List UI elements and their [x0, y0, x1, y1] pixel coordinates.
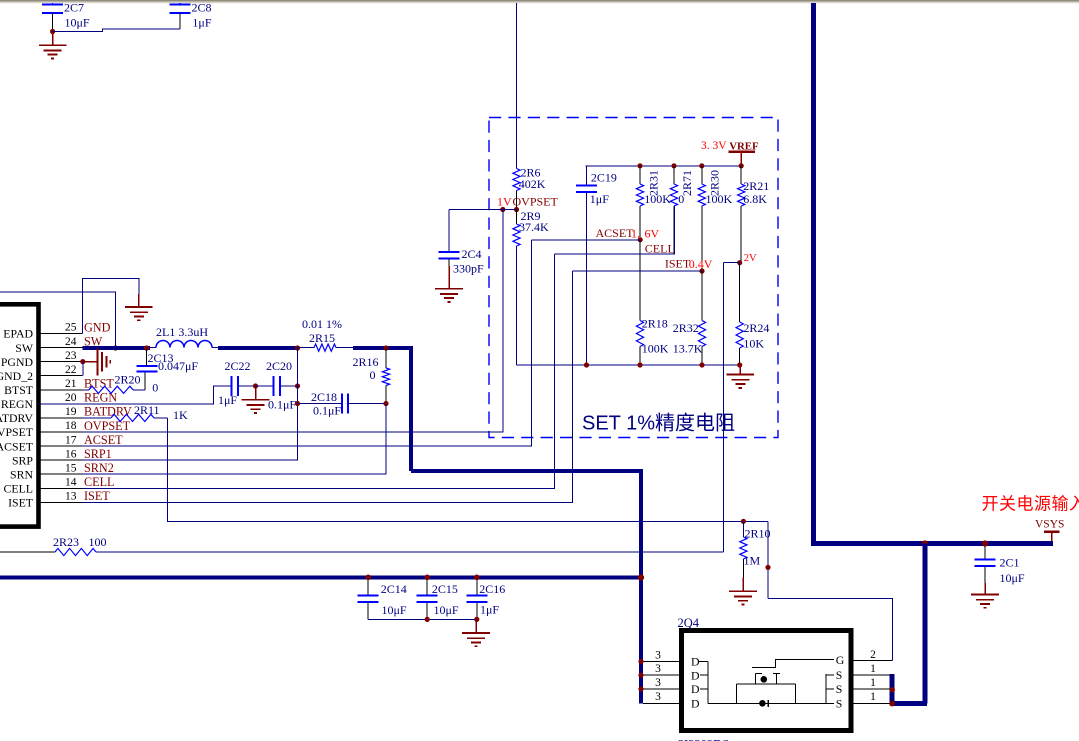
- svg-text:2R20: 2R20: [115, 372, 141, 386]
- svg-text:20: 20: [65, 392, 77, 404]
- resistor 2R15 (0.01 1%) current sense: [298, 317, 354, 351]
- wire GND pin to ground: [83, 278, 139, 333]
- capacitor 2C18 (0.1uF): [298, 390, 387, 418]
- ground (below 2R10): [729, 578, 757, 605]
- svg-text:D: D: [691, 668, 700, 682]
- svg-text:0: 0: [678, 192, 684, 206]
- svg-text:BTST: BTST: [84, 377, 114, 391]
- svg-text:VREF: VREF: [729, 140, 759, 152]
- svg-text:10μF: 10μF: [382, 603, 407, 617]
- svg-text:2C16: 2C16: [479, 582, 505, 596]
- junction (SW bus / 2C13): [144, 345, 149, 350]
- ground (below divider rail): [727, 365, 755, 388]
- svg-text:37.4K: 37.4K: [519, 220, 549, 234]
- ground (decoupling mid): [242, 386, 270, 413]
- svg-text:2Q4: 2Q4: [678, 616, 700, 630]
- svg-text:13.7K: 13.7K: [673, 341, 703, 355]
- node ISET 0.4V: [665, 257, 713, 271]
- capacitor 2C15 (10uF): [417, 580, 459, 620]
- svg-text:13: 13: [65, 491, 77, 503]
- svg-text:1V: 1V: [497, 195, 512, 209]
- wire pin22 to pin23 node: [82, 362, 84, 376]
- svg-text:1K: 1K: [173, 408, 188, 422]
- svg-text:SW: SW: [15, 341, 34, 355]
- svg-text:3: 3: [655, 649, 661, 661]
- junction (ACSET): [638, 237, 643, 242]
- power symbol PGND (rotated ground): [83, 348, 111, 375]
- IC pin net labels (GND SW BTST REGN BATDRV OVPSET ACSET SRP1 SRN2 CELL ISET): [84, 320, 132, 503]
- junction (rail/2R32 bottom): [699, 362, 704, 367]
- junction (S pin 1 mid): [889, 687, 895, 693]
- 2Q4 gate/source pin stubs (pins 2,1,1,1): [851, 649, 893, 703]
- svg-text:2C14: 2C14: [381, 582, 407, 596]
- IC U2 charger (pins 13-25): [0, 304, 83, 526]
- capacitor 2C20 (0.1uF): [256, 359, 298, 412]
- junction (S pin 1 bottom): [889, 701, 895, 707]
- svg-text:6V: 6V: [645, 227, 660, 241]
- resistor 2R6 (402K): [513, 166, 546, 208]
- capacitor 2C16 (1uF): [466, 580, 505, 620]
- ground (pin 25 GND): [125, 294, 153, 320]
- junction (2R16 / 2C18 / SRN2): [383, 401, 388, 406]
- svg-text:2C18: 2C18: [311, 390, 337, 404]
- wire from left edge to SW node: [0, 292, 116, 346]
- svg-text:2R24: 2R24: [743, 321, 769, 335]
- junction dot (2C7 / gnd / wire to 2C8): [50, 29, 55, 34]
- svg-text:21: 21: [65, 378, 77, 390]
- junction (bus/2C16): [474, 575, 480, 581]
- junction (PGND pins 22/23): [80, 359, 85, 364]
- junction (2C15 bottom): [425, 617, 430, 622]
- svg-text:25: 25: [65, 322, 77, 334]
- svg-text:ACSET: ACSET: [596, 226, 635, 240]
- svg-text:1μF: 1μF: [480, 602, 499, 616]
- svg-text:3: 3: [655, 691, 661, 703]
- wire VREF rail: [586, 165, 742, 167]
- junction (drain bus/pin3 b): [638, 673, 643, 678]
- svg-text:3. 3V: 3. 3V: [701, 140, 727, 152]
- svg-text:0.1μF: 0.1μF: [313, 403, 341, 417]
- svg-text:BATDRV: BATDRV: [0, 411, 33, 425]
- junction (rail/2R18 bottom): [637, 362, 642, 367]
- svg-text:2C1: 2C1: [1000, 556, 1020, 570]
- junction (SW bus / left wire): [113, 345, 118, 350]
- svg-text:19: 19: [65, 406, 77, 418]
- svg-text:GND_2: GND_2: [0, 369, 33, 383]
- svg-text:SRP1: SRP1: [84, 447, 112, 461]
- resistor 2R30 (100K): [698, 166, 732, 271]
- svg-text:100K: 100K: [706, 192, 733, 206]
- junction (rail/2R21/VREF): [739, 163, 744, 168]
- resistor 2R18 (100K): [636, 240, 668, 365]
- resistor 2R23 (100): [0, 535, 724, 556]
- svg-text:ACSET: ACSET: [84, 433, 123, 447]
- svg-text:2C8: 2C8: [192, 1, 212, 15]
- junction (ISET): [699, 268, 704, 273]
- svg-text:402K: 402K: [519, 177, 546, 191]
- capacitor 2C7: [42, 1, 90, 32]
- wire 2V node to riser: [724, 262, 740, 264]
- wire gate net riser: [767, 521, 769, 598]
- svg-text:17: 17: [65, 434, 77, 446]
- junction (rail/2R71): [671, 163, 676, 168]
- svg-text:REGN: REGN: [84, 391, 117, 405]
- svg-text:OVPSET: OVPSET: [0, 425, 34, 439]
- wire thick bus corner down: [409, 346, 413, 471]
- svg-text:10μF: 10μF: [434, 603, 459, 617]
- wire BATDRV routed to 2R10/gate: [168, 418, 768, 521]
- wire thick branch horizontal to S-pin bar: [892, 701, 927, 706]
- ground (below 2C7): [39, 32, 67, 59]
- node ACSET 1.6V: [596, 226, 660, 241]
- node 2V label: [744, 253, 757, 264]
- junction (sense col / 2C18): [295, 401, 300, 406]
- wire thick bus segment 3: [353, 346, 413, 350]
- svg-text:D: D: [691, 682, 700, 696]
- junction (input bus / 2C1): [982, 540, 988, 546]
- wire gate net to 2Q4 G pin: [768, 598, 893, 660]
- junction (rail/2C19 bottom): [584, 362, 589, 367]
- svg-text:ACSET: ACSET: [0, 439, 34, 453]
- junction (2C16 bottom / gnd): [474, 617, 479, 622]
- svg-text:15: 15: [65, 462, 77, 474]
- svg-text:ISET: ISET: [665, 257, 691, 271]
- wire REGN to 2C22: [39, 386, 232, 404]
- svg-text:1: 1: [870, 663, 876, 675]
- junction (bottom bus / drain bus): [638, 574, 644, 580]
- svg-text:BTST: BTST: [4, 383, 34, 397]
- svg-text:D: D: [691, 697, 700, 711]
- transistor 2Q4 internal MOSFET symbol: [691, 653, 845, 710]
- svg-text:2C7: 2C7: [64, 1, 84, 15]
- svg-text:1M: 1M: [744, 553, 761, 567]
- wire thick branch down to 2Q4 source pins: [922, 544, 927, 704]
- wire 2V riser down to 2R23 net: [723, 263, 725, 552]
- svg-text:1: 1: [870, 677, 876, 689]
- svg-text:100: 100: [89, 535, 107, 549]
- svg-text:SRP: SRP: [12, 453, 33, 467]
- junction (drain bus/pin3 c): [638, 686, 643, 691]
- svg-text:2R32: 2R32: [673, 321, 699, 335]
- node CELL label: [645, 242, 675, 256]
- resistor 2R32 (13.7K): [673, 271, 706, 365]
- svg-text:SRN: SRN: [10, 467, 33, 481]
- resistor 2R31 (100K): [636, 166, 671, 237]
- junction (rail/2R30): [699, 163, 704, 168]
- wire OVPSET pin to box: [83, 210, 504, 433]
- svg-text:VSYS: VSYS: [1035, 519, 1064, 531]
- wire ACSET horizontal: [531, 239, 640, 241]
- wire thick input bus vertical (right): [811, 3, 816, 541]
- 2Q4 drain pin stubs (pins 3): [643, 649, 682, 703]
- svg-text:1: 1: [870, 691, 876, 703]
- resistor 2R10 (1M): [740, 521, 771, 577]
- svg-text:GND: GND: [84, 320, 111, 334]
- svg-text:10μF: 10μF: [65, 16, 90, 30]
- svg-text:0.01 1%: 0.01 1%: [302, 317, 342, 331]
- svg-text:ISET: ISET: [8, 496, 34, 510]
- svg-text:S: S: [836, 696, 843, 710]
- wire thick S-pin bar of 2Q4: [890, 674, 895, 706]
- resistor 2R20 (0) bootstrap: [83, 372, 159, 394]
- capacitor 2C1: [975, 546, 1025, 585]
- svg-text:22: 22: [65, 364, 77, 376]
- svg-text:S: S: [836, 682, 843, 696]
- svg-text:ISET: ISET: [84, 489, 110, 503]
- junction (drain bus/pin3 a): [638, 659, 643, 664]
- svg-text:2C15: 2C15: [432, 582, 458, 596]
- wire thick SW bus segment 2: [218, 346, 298, 350]
- capacitor 2C22 (1uF): [218, 359, 256, 407]
- svg-text:OVPSET: OVPSET: [84, 419, 131, 433]
- svg-text:2C4: 2C4: [462, 247, 482, 261]
- svg-text:18: 18: [65, 420, 77, 432]
- junction (bus / 2R16 tap): [383, 345, 388, 350]
- svg-text:2R21: 2R21: [743, 179, 769, 193]
- svg-text:SRN2: SRN2: [84, 461, 114, 475]
- capacitor 2C19 (1uF): [576, 166, 617, 365]
- wire CELL pin to box: [83, 254, 555, 488]
- svg-text:2L1 3.3uH: 2L1 3.3uH: [156, 325, 208, 339]
- capacitor 2C4 (330pF): [439, 210, 485, 276]
- svg-text:PGND: PGND: [1, 355, 34, 369]
- svg-text:1μF: 1μF: [218, 393, 237, 407]
- resistor 2R24 (10K): [736, 263, 769, 365]
- junction (OVPSET riser): [500, 207, 505, 212]
- svg-text:2R23: 2R23: [53, 535, 79, 549]
- power symbol VSYS: [1035, 519, 1064, 542]
- svg-text:SET 1%精度电阻: SET 1%精度电阻: [582, 412, 735, 435]
- wire thick bottom bus: [0, 576, 643, 580]
- wire 2C7 bottom to 2C8 bottom: [53, 29, 180, 31]
- ground (below 2C16): [462, 619, 490, 646]
- svg-text:0: 0: [152, 380, 158, 394]
- svg-text:2R15: 2R15: [309, 331, 335, 345]
- resistor 2R71 (0): [670, 166, 694, 254]
- capacitor 2C8: [169, 1, 212, 30]
- wire cap bottoms: [368, 619, 477, 621]
- inductor 2L1 (3.3uH): [150, 325, 218, 348]
- svg-text:2C20: 2C20: [266, 359, 292, 373]
- dashed group box: SET 1% precision resistors: [489, 118, 778, 438]
- svg-text:100K: 100K: [644, 192, 671, 206]
- svg-text:CELL: CELL: [84, 475, 114, 489]
- svg-text:SI2302DS: SI2302DS: [677, 737, 729, 741]
- svg-text:CELL: CELL: [645, 242, 675, 256]
- capacitor 2C14 (10uF): [358, 580, 407, 620]
- resistor 2R16 (0): [353, 348, 390, 404]
- net label 开关电源输入 (switching supply input): [982, 495, 1079, 514]
- svg-text:2: 2: [870, 649, 876, 661]
- junction (2V): [737, 260, 742, 265]
- junction (2R6/2R9/2C4 node): [514, 207, 519, 212]
- svg-text:G: G: [836, 653, 845, 667]
- resistor 2R11 (1K): [83, 403, 189, 422]
- wire ISET horizontal: [573, 270, 703, 272]
- wire SRP1 sense column: [83, 348, 298, 460]
- junction (2C22/2C20/gnd): [253, 383, 258, 388]
- svg-text:330pF: 330pF: [453, 262, 484, 276]
- wire ACSET pin to box: [83, 240, 532, 446]
- svg-text:2R18: 2R18: [642, 316, 668, 330]
- svg-text:2V: 2V: [744, 253, 757, 264]
- svg-text:6.8K: 6.8K: [743, 192, 767, 206]
- wire thick drain bus down to 2Q4: [639, 469, 643, 703]
- svg-text:2C22: 2C22: [225, 359, 251, 373]
- wire SRN2 column: [83, 404, 387, 475]
- junction (bus/2C15): [424, 575, 430, 581]
- svg-text:3: 3: [655, 663, 661, 675]
- svg-text:0.047μF: 0.047μF: [158, 359, 198, 373]
- svg-text:100K: 100K: [642, 341, 669, 355]
- resistor 2R21 (6.8K): [738, 166, 770, 263]
- svg-text:CELL: CELL: [4, 482, 34, 496]
- svg-text:S: S: [836, 668, 843, 682]
- svg-text:10K: 10K: [743, 336, 764, 350]
- ground (below 2C4): [435, 266, 463, 302]
- svg-text:3: 3: [655, 677, 661, 689]
- wire CELL horizontal: [555, 206, 675, 254]
- svg-text:0.1μF: 0.1μF: [268, 398, 296, 412]
- svg-text:14: 14: [65, 477, 77, 489]
- junction (rail/2R24 bottom): [737, 362, 742, 367]
- svg-text:2R10: 2R10: [745, 526, 771, 540]
- wire OVPSET node to 2C4: [449, 209, 517, 211]
- svg-text:10μF: 10μF: [1000, 571, 1025, 585]
- junction (sense col / 2C20): [295, 383, 300, 388]
- svg-text:1μF: 1μF: [590, 192, 609, 206]
- wire divider bottom rail: [517, 364, 740, 366]
- wire thick SW bus segment 1: [83, 346, 151, 350]
- svg-text:16: 16: [65, 448, 77, 460]
- svg-text:2R11: 2R11: [134, 403, 160, 417]
- svg-text:2R16: 2R16: [353, 355, 379, 369]
- svg-text:REGN: REGN: [1, 397, 34, 411]
- power symbol VREF (3.3V): [701, 140, 759, 166]
- junction (gate net): [765, 565, 770, 570]
- junction (BATDRV wire / 2R10): [741, 519, 746, 524]
- junction (input bus / branch to 2Q4): [922, 540, 928, 546]
- svg-text:EPAD: EPAD: [3, 327, 33, 341]
- svg-text:2C19: 2C19: [591, 170, 617, 184]
- svg-text:开关电源输入: 开关电源输入: [982, 495, 1079, 514]
- capacitor 2C13 (0.047uF): [137, 349, 199, 390]
- transistor 2Q4 body: [677, 616, 851, 741]
- junction (bus/2C14): [365, 575, 371, 581]
- svg-text:1μF: 1μF: [192, 16, 211, 30]
- junction (bus / SRP1 tap): [295, 345, 300, 350]
- resistor 2R9 (37.4K): [513, 209, 549, 365]
- ground (below 2C1): [971, 583, 999, 608]
- svg-text:0: 0: [370, 368, 376, 382]
- wire from top edge down to 2R6: [516, 3, 518, 169]
- svg-text:23: 23: [65, 350, 77, 362]
- wire thick bus horizontal y471: [411, 469, 643, 473]
- svg-text:24: 24: [65, 336, 77, 348]
- junction (rail/2R31): [637, 163, 642, 168]
- svg-text:OVPSET: OVPSET: [513, 195, 559, 209]
- wire thick input bus horizontal to VSYS: [811, 541, 1053, 546]
- node 1V OVPSET label: [497, 195, 559, 209]
- wire ISET pin to box: [83, 271, 573, 502]
